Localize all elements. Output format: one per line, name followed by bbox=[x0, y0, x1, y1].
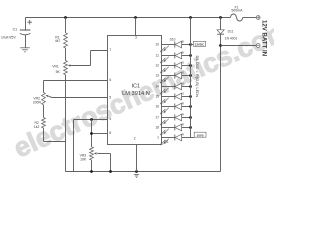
potentiometer VR3 10K bbox=[90, 147, 94, 160]
wire pin3 bbox=[135, 18, 137, 36]
node pin3 junction bbox=[134, 16, 137, 19]
node R1 top junction bbox=[64, 16, 67, 19]
svg-text:500mA: 500mA bbox=[231, 9, 243, 13]
wire fuse to + terminal bbox=[243, 17, 257, 19]
svg-text:10K: 10K bbox=[80, 157, 87, 161]
svg-text:R: R bbox=[182, 113, 184, 117]
wire VR1 wiper to pin7 bbox=[74, 65, 91, 67]
wire VR2 wiper to pin5 bbox=[52, 97, 108, 99]
svg-text:10V5: 10V5 bbox=[197, 133, 204, 137]
node pin4 branch bbox=[90, 118, 93, 121]
svg-text:8: 8 bbox=[109, 131, 111, 135]
terminal + 12V bbox=[256, 16, 260, 20]
wire to minus terminal bbox=[221, 45, 257, 47]
potentiometer VR1 5K bbox=[64, 61, 68, 75]
svg-text:200R: 200R bbox=[33, 100, 42, 104]
svg-text:R: R bbox=[182, 123, 184, 127]
potentiometer VR2 200R bbox=[42, 93, 46, 105]
svg-text:D1: D1 bbox=[165, 140, 169, 144]
svg-text:G: G bbox=[182, 82, 184, 86]
wire pin4 bbox=[74, 119, 108, 121]
svg-text:LM 3914 N: LM 3914 N bbox=[122, 91, 150, 97]
svg-text:D1-D10 = R(G,B) LEDs: D1-D10 = R(G,B) LEDs bbox=[195, 56, 200, 98]
svg-text:12VDC: 12VDC bbox=[195, 42, 206, 46]
capacitor C1 bbox=[25, 18, 27, 31]
svg-text:1k2: 1k2 bbox=[34, 125, 40, 129]
svg-text:16: 16 bbox=[155, 104, 159, 108]
wire VR3 wiper to ground bbox=[101, 153, 111, 155]
svg-text:B: B bbox=[182, 40, 184, 44]
svg-text:IC1: IC1 bbox=[131, 83, 140, 89]
svg-text:15: 15 bbox=[155, 94, 159, 98]
node VR3 bottom bbox=[90, 170, 93, 173]
watermark bbox=[9, 15, 294, 164]
svg-text:1N 4001: 1N 4001 bbox=[225, 37, 238, 41]
wire R1-VR1 bbox=[65, 48, 67, 61]
LED D9 pin 11 bbox=[156, 51, 192, 64]
fuse F1 500mA bbox=[230, 14, 242, 21]
resistor R1 4k7 bbox=[64, 33, 68, 48]
wire VR3 bottom bbox=[91, 160, 93, 172]
svg-text:R: R bbox=[182, 133, 184, 137]
svg-text:G: G bbox=[182, 61, 184, 65]
node D11 to minus terminal bbox=[219, 44, 222, 47]
svg-text:10: 10 bbox=[155, 42, 159, 46]
wire VR1 bottom down to ground rail bbox=[65, 75, 67, 172]
LED D8 pin 12 bbox=[155, 61, 192, 74]
label box 10V5 bbox=[191, 137, 195, 139]
svg-text:6: 6 bbox=[109, 78, 111, 82]
LED rail wire bbox=[190, 18, 192, 138]
wire R2 bottom bbox=[43, 128, 45, 142]
LED D3 pin 17 bbox=[155, 113, 192, 126]
svg-text:4k7: 4k7 bbox=[55, 39, 61, 43]
svg-text:G: G bbox=[182, 92, 184, 96]
terminal - 12V bbox=[256, 44, 260, 48]
wire pin2 bbox=[136, 145, 138, 172]
LED D2 pin 18 bbox=[155, 123, 192, 136]
LED D5 pin 15 bbox=[155, 92, 192, 105]
svg-text:10uF/25V: 10uF/25V bbox=[1, 35, 16, 39]
LED D4 pin 16 bbox=[155, 102, 192, 115]
svg-text:5K: 5K bbox=[56, 70, 61, 74]
node LED rail junction bbox=[189, 16, 192, 19]
svg-text:B: B bbox=[182, 51, 184, 55]
wire VR2-R2 bbox=[43, 105, 45, 118]
node wiper ground bbox=[109, 170, 112, 173]
label 12V BATT IN bbox=[261, 20, 268, 56]
svg-text:7: 7 bbox=[109, 48, 111, 52]
node D11 top junction bbox=[219, 16, 222, 19]
label D1-D10 vertical bbox=[195, 56, 200, 98]
svg-text:D10: D10 bbox=[170, 38, 176, 42]
svg-text:C1: C1 bbox=[13, 28, 18, 32]
op-amp U1 IC1 LM3914N box bbox=[108, 36, 162, 145]
svg-text:VR1: VR1 bbox=[52, 64, 59, 68]
node pin2 ground bbox=[135, 170, 138, 173]
diode D11 1N4001 bbox=[217, 30, 224, 34]
resistor R2 1k2 bbox=[42, 118, 46, 129]
LED D6 pin 14 bbox=[155, 82, 192, 95]
svg-text:18: 18 bbox=[155, 125, 159, 129]
ground C1 bbox=[20, 47, 30, 49]
wire R1 top bbox=[65, 18, 67, 33]
svg-text:12V BATT IN: 12V BATT IN bbox=[261, 20, 268, 56]
wire bottom ground rail bbox=[66, 171, 221, 173]
LED D7 pin 13 bbox=[155, 71, 192, 84]
LED D10 pin 10 bbox=[155, 40, 192, 53]
svg-text:5: 5 bbox=[109, 95, 111, 99]
svg-text:D11: D11 bbox=[228, 29, 234, 33]
svg-text:13: 13 bbox=[155, 73, 159, 77]
wire pin6 bbox=[44, 80, 108, 82]
ground main bbox=[134, 173, 139, 175]
svg-text:3: 3 bbox=[135, 36, 137, 40]
LED D1 pin 1 bbox=[157, 133, 190, 146]
svg-text:1: 1 bbox=[157, 135, 159, 139]
label box 12VDC bbox=[191, 44, 194, 46]
wire top +12V rail bbox=[26, 17, 231, 19]
node pin8 branch bbox=[90, 132, 93, 135]
svg-text:R: R bbox=[182, 102, 184, 106]
svg-text:2: 2 bbox=[134, 137, 136, 141]
svg-text:G: G bbox=[182, 71, 184, 75]
svg-text:12: 12 bbox=[155, 63, 159, 67]
wire D11 branch bbox=[220, 18, 222, 30]
svg-text:17: 17 bbox=[155, 115, 159, 119]
svg-text:14: 14 bbox=[155, 84, 159, 88]
wire pin8 tie bbox=[91, 120, 93, 147]
svg-text:4: 4 bbox=[109, 117, 111, 121]
svg-text:11: 11 bbox=[156, 53, 160, 57]
